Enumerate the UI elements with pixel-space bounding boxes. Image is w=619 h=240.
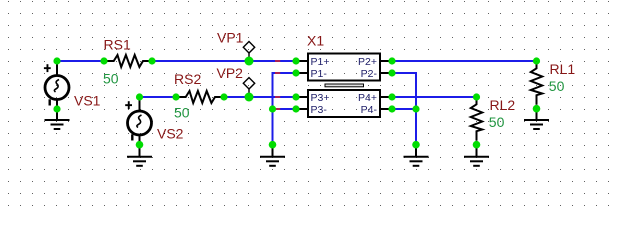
node P1- <box>292 69 299 76</box>
svg-text:50: 50 <box>489 114 505 130</box>
wire P2- stub <box>392 72 417 74</box>
node RS2 left <box>172 93 179 100</box>
junction left gnd net <box>269 105 276 112</box>
node P2- <box>388 69 395 76</box>
pin number dash P3- <box>275 108 280 110</box>
svg-text:VP2: VP2 <box>217 65 244 81</box>
ground RL1 <box>524 109 549 129</box>
node P3- <box>292 105 299 112</box>
svg-text:P1+: P1+ <box>311 56 330 68</box>
node RS2 right <box>220 93 227 100</box>
node RL2 top <box>473 93 480 100</box>
svg-text:P4+: P4+ <box>358 92 377 104</box>
wire P4- stub <box>392 108 416 110</box>
vsource VS1 <box>44 61 69 109</box>
node RS1 left <box>100 57 107 64</box>
node VP1 <box>245 57 254 66</box>
svg-text:VS1: VS1 <box>74 93 101 109</box>
pin P1+ <box>296 60 308 62</box>
svg-text:VP1: VP1 <box>217 29 244 45</box>
node RL1 top <box>533 57 540 64</box>
svg-text:RL2: RL2 <box>490 97 516 113</box>
svg-text:P2-: P2- <box>361 68 378 80</box>
pin number dash P1- <box>275 72 280 74</box>
node VS2+ <box>136 93 143 100</box>
node VS2 gnd <box>136 141 144 149</box>
wire P3- stub <box>273 108 297 110</box>
node VS1- <box>53 105 60 112</box>
wire P4+ to RL2 <box>392 96 477 98</box>
pin P3- <box>296 108 308 110</box>
ground right vertical <box>404 145 429 166</box>
svg-text:X1: X1 <box>307 32 324 48</box>
ground RL2 <box>464 145 489 166</box>
node RL1 gnd <box>533 105 541 113</box>
svg-text:50: 50 <box>549 78 565 94</box>
svg-text:VS2: VS2 <box>157 126 184 142</box>
probe VP2 diamond <box>243 78 254 97</box>
pin number dash P1+ <box>275 60 280 62</box>
resistor RL1 <box>531 61 542 105</box>
pin P1- <box>296 72 308 74</box>
svg-text:P3+: P3+ <box>311 92 330 104</box>
pin P4- <box>380 108 392 110</box>
pin P2+ <box>380 60 392 62</box>
wire net3: VS2 to RS2 <box>140 96 177 98</box>
svg-text:50: 50 <box>174 104 190 120</box>
pin P4+ <box>380 96 392 98</box>
subckt X1 box top <box>308 54 380 81</box>
node P4+ <box>388 93 395 100</box>
wire ground vertical left <box>272 72 274 145</box>
node P3+ <box>292 93 299 100</box>
node VP2 <box>245 93 254 102</box>
node P2+ <box>388 57 395 64</box>
node P1+ <box>292 57 299 64</box>
wire P2+ to RL1 <box>392 60 537 62</box>
resistor RS2 <box>176 91 224 103</box>
ground VS2 <box>127 145 152 166</box>
wire net1: VS1 to RS1 <box>57 60 104 62</box>
svg-text:P4-: P4- <box>361 104 378 116</box>
svg-text:50: 50 <box>103 71 119 87</box>
svg-text:P3-: P3- <box>311 104 328 116</box>
resistor RS1 <box>104 55 152 67</box>
pin P3+ <box>296 96 308 98</box>
node VS1+ <box>53 57 60 64</box>
node right gnd <box>412 141 420 149</box>
ground left vertical <box>260 145 285 166</box>
junction right gnd net <box>412 105 419 112</box>
svg-text:RL1: RL1 <box>550 61 576 77</box>
node P4- <box>388 105 395 112</box>
svg-text:P1-: P1- <box>311 68 328 80</box>
node RS1 right <box>148 57 155 64</box>
svg-text:RS1: RS1 <box>104 37 131 53</box>
pin P2- <box>380 72 392 74</box>
vsource VS2 <box>125 97 151 145</box>
coupling bar <box>325 84 364 87</box>
wire P1- stub <box>273 72 297 74</box>
svg-text:P2+: P2+ <box>358 56 377 68</box>
node RL2 gnd <box>473 141 481 149</box>
wire net2: RS1 to P1+ <box>152 60 296 62</box>
ground VS1 <box>45 109 70 129</box>
resistor RL2 <box>471 97 482 141</box>
pin number dash P3+ <box>275 96 280 98</box>
probe VP1 diamond <box>243 42 254 62</box>
wire net4: RS2 to P3+ <box>224 96 296 98</box>
wire ground vertical right <box>415 72 417 145</box>
subckt X1 box bottom <box>308 90 380 117</box>
node left gnd <box>269 141 277 149</box>
svg-text:RS2: RS2 <box>174 71 201 87</box>
